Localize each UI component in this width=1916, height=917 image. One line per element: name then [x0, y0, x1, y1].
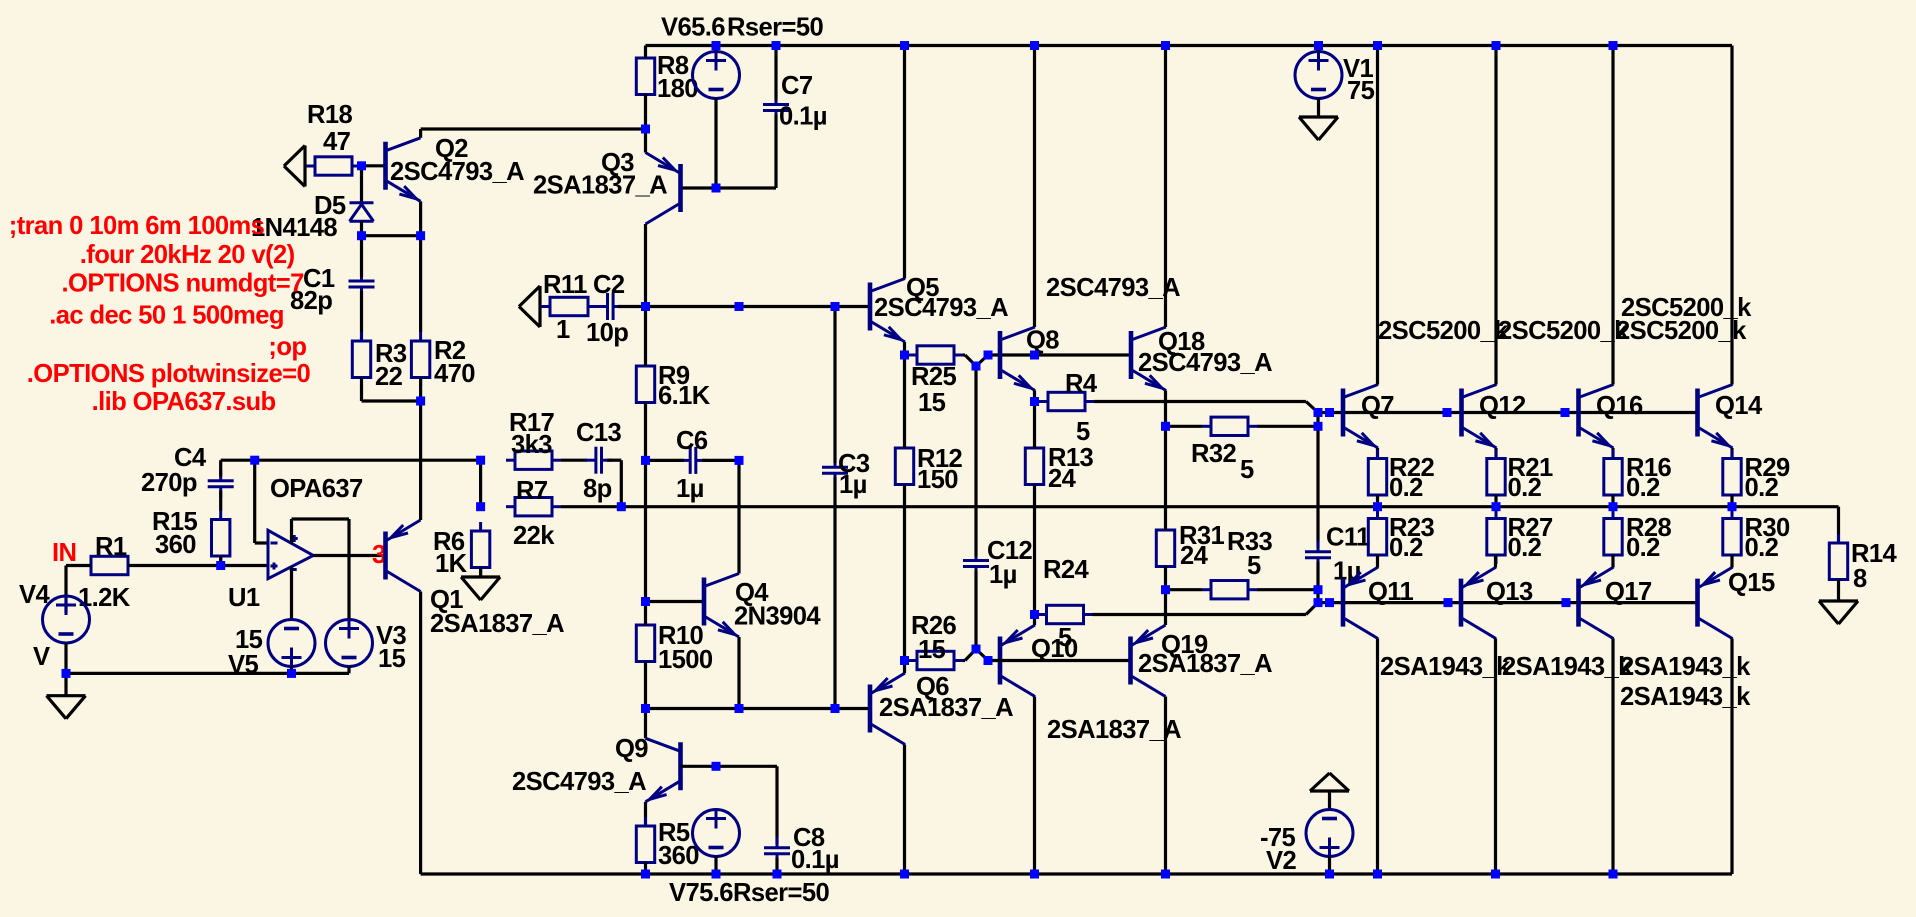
junction C2 rail at C6 column — [735, 302, 744, 311]
transistor Q4 2N3904 — [704, 574, 739, 638]
resistor R10 — [636, 616, 654, 671]
junction base rail at Q8 collector column — [1030, 351, 1039, 360]
wire R4 to output NPN bases — [1094, 402, 1318, 413]
wire Q17 collector down — [1611, 639, 1614, 875]
junction Q16 collector top rail — [1609, 41, 1618, 50]
wire V1 top lead — [1317, 46, 1320, 52]
resistor R11 — [541, 297, 597, 315]
svg-text:C6: C6 — [676, 427, 708, 455]
resistor R3 — [352, 332, 370, 387]
resistor R4 — [1039, 392, 1094, 410]
wire Q19 emitter up (crosses R24 wire) — [1164, 590, 1167, 625]
wire Q12 emitter to resistor — [1494, 448, 1497, 459]
wire top supply rail — [646, 44, 1733, 47]
svg-text:Q15: Q15 — [1728, 569, 1775, 597]
wire Q5 emitter down — [903, 342, 906, 355]
svg-text:2SC5200_k: 2SC5200_k — [1616, 317, 1747, 345]
wire R32 right lead — [1257, 425, 1318, 428]
junction V6 top — [712, 41, 721, 50]
svg-text:.ac dec 50 1 500meg: .ac dec 50 1 500meg — [49, 301, 284, 329]
resistor R23 — [1368, 510, 1386, 565]
wire Q5 collector up — [903, 46, 906, 279]
transistor Q15 2SA1943_k — [1698, 567, 1733, 639]
wire Q17 emitter up — [1611, 555, 1614, 568]
svg-text:2N3904: 2N3904 — [734, 603, 821, 631]
svg-text:Q7: Q7 — [1361, 392, 1394, 420]
svg-text:470: 470 — [434, 360, 475, 388]
voltage source V6 — [693, 51, 740, 99]
svg-text:V: V — [33, 643, 50, 671]
resistor R21 — [1487, 450, 1505, 505]
wire Q16 collector up — [1611, 46, 1614, 385]
resistor R18 — [306, 157, 361, 175]
wire IN to R1 — [66, 564, 91, 567]
wire C13 corner down — [607, 460, 621, 507]
junction R21 mid rail — [1492, 502, 1501, 511]
wire C3 bottom lead — [833, 477, 836, 708]
junction D5/C1 — [357, 231, 366, 240]
svg-text:0.2: 0.2 — [1745, 534, 1779, 562]
port arrow at R11 — [519, 286, 540, 327]
wire D5 to C1 node — [360, 221, 363, 235]
svg-text:Q10: Q10 — [1031, 635, 1078, 663]
voltage source V3 — [326, 619, 373, 667]
svg-text:10p: 10p — [586, 319, 628, 347]
svg-text:15: 15 — [918, 636, 946, 664]
wire R2 top — [419, 236, 422, 332]
transistor Q6 2SA1837_A — [870, 673, 905, 745]
capacitor C11 — [1305, 541, 1331, 569]
wire Q4 base — [646, 600, 705, 603]
wire Q1 emitter up — [419, 401, 422, 520]
transistor Q2 2SC4793_A — [386, 138, 421, 202]
svg-text:22k: 22k — [513, 522, 555, 550]
resistor R9 — [636, 357, 654, 412]
svg-text:360: 360 — [155, 531, 196, 559]
svg-text:V65.6: V65.6 — [661, 14, 725, 42]
resistor R28 — [1604, 510, 1622, 565]
transistor Q7 2SC5200_k — [1343, 385, 1378, 449]
svg-text:0.2: 0.2 — [1626, 534, 1660, 562]
svg-text:Q14: Q14 — [1715, 392, 1763, 420]
junction R8/Q2/Q3 node — [641, 125, 650, 134]
svg-text:1µ: 1µ — [989, 561, 1017, 589]
wire op-amp V- to V5 — [290, 568, 293, 620]
svg-text:15: 15 — [235, 626, 263, 654]
wire Q4 base node to R10 — [644, 602, 647, 626]
junction Q10 base — [984, 656, 993, 665]
wire Q2 collector to R8 node — [421, 129, 646, 138]
svg-text:2SA1943_k: 2SA1943_k — [1620, 653, 1751, 681]
svg-text:Q8: Q8 — [1026, 327, 1059, 355]
resistor R2 — [411, 332, 429, 387]
svg-text:V75.6: V75.6 — [669, 879, 733, 907]
junction R18/D5/Q2 base — [357, 161, 366, 170]
transistor Q16 2SC5200_k — [1579, 385, 1614, 449]
transistor Q10 2SA1837_A — [1000, 625, 1035, 697]
junction C12 top — [972, 362, 981, 371]
svg-text:8p: 8p — [583, 475, 612, 503]
svg-text:1500: 1500 — [658, 646, 713, 674]
svg-text:2SC4793_A: 2SC4793_A — [874, 294, 1008, 322]
wire Q9 emitter down — [644, 802, 647, 826]
svg-text:R25: R25 — [911, 363, 957, 391]
capacitor C1 — [349, 270, 375, 298]
wire Q6 emitter up — [903, 661, 906, 674]
svg-text:V4: V4 — [19, 581, 50, 609]
svg-text:2SA1943_k: 2SA1943_k — [1380, 653, 1511, 681]
svg-text:24: 24 — [1180, 542, 1209, 570]
capacitor C8 — [764, 837, 790, 865]
svg-text:.four 20kHz 20 v(2): .four 20kHz 20 v(2) — [80, 241, 295, 269]
svg-text:0.2: 0.2 — [1389, 474, 1423, 502]
junction V7 top — [712, 762, 721, 771]
wire ground bus V4-V5-V3 — [66, 672, 349, 675]
junction R5 bottom rail — [641, 870, 650, 879]
svg-text:2SA1837_A: 2SA1837_A — [430, 610, 564, 638]
wire Q13 emitter up — [1494, 555, 1497, 568]
junction C4 rail at R17 — [476, 456, 485, 465]
transistor Q18 2SC4793_A — [1131, 327, 1166, 391]
resistor R32 — [1202, 417, 1257, 435]
resistor R13 — [1025, 439, 1043, 494]
junction PNP base jog lower — [1314, 598, 1323, 607]
wire R22 to mid rail — [1376, 495, 1379, 507]
junction Q17 collector bottom rail — [1609, 870, 1618, 879]
ground under R14 — [1819, 601, 1858, 624]
wire Q9 collector up — [644, 709, 647, 739]
capacitor C6 — [679, 447, 707, 474]
wire Q8/Q18 base rail — [988, 353, 1131, 356]
svg-text:R18: R18 — [307, 101, 353, 129]
junction Q7 base pin — [1325, 408, 1334, 417]
junction C4 rail at op-amp branch — [250, 456, 259, 465]
wire Q16 emitter to resistor — [1611, 448, 1614, 459]
wire V1 bottom lead — [1317, 99, 1320, 118]
wire mid rail corner to R14 — [1837, 507, 1840, 543]
transistor Q8 2SC4793_A — [1000, 327, 1035, 391]
wire jog vertical — [1316, 413, 1319, 427]
svg-text:C13: C13 — [576, 419, 622, 447]
wire Q9 base corner to C8 — [775, 766, 778, 844]
wire C6 left lead — [646, 459, 685, 462]
wire R31 bottom — [1164, 567, 1167, 590]
svg-text:2SC5200_k: 2SC5200_k — [1378, 317, 1509, 345]
junction R26 left / Q6 emitter — [900, 656, 909, 665]
wire R18 junction to Q2 base — [362, 164, 386, 167]
junction V7 bottom rail — [712, 870, 721, 879]
junction V5 bottom — [287, 669, 296, 678]
voltage source V7 — [693, 809, 740, 857]
wire C6 right lead — [702, 459, 739, 462]
svg-text:V2: V2 — [1266, 847, 1296, 875]
junction C13/R7 at mid rail — [617, 502, 626, 511]
svg-text:;op: ;op — [268, 333, 306, 361]
wire Q1 collector down — [419, 592, 422, 875]
svg-text:R24: R24 — [1043, 556, 1090, 584]
svg-text:2SA1943_k: 2SA1943_k — [1502, 653, 1633, 681]
junction Q4 base — [641, 597, 650, 606]
wire R21 to mid rail — [1494, 495, 1497, 507]
svg-text:0.2: 0.2 — [1508, 474, 1542, 502]
svg-text:5: 5 — [1076, 418, 1090, 446]
junction R29 mid rail — [1728, 502, 1737, 511]
wire Q11 collector down — [1376, 639, 1379, 875]
wire Q3 collector down — [644, 224, 647, 307]
junction Q5 emitter / R25 — [900, 351, 909, 360]
ground under V4 — [47, 696, 86, 719]
junction Q11 base pin — [1325, 598, 1334, 607]
junction V6/Q3 base — [712, 184, 721, 193]
wire C8 bottom — [775, 858, 778, 874]
transistor Q3 2SA1837_A — [646, 153, 681, 225]
resistor R12 — [895, 439, 913, 494]
wire C1 to R3 — [360, 291, 363, 341]
wire V2 bottom lead — [1328, 857, 1331, 875]
capacitor C13 — [585, 447, 613, 474]
svg-text:2SA1837_A: 2SA1837_A — [1138, 650, 1272, 678]
svg-text:.lib OPA637.sub: .lib OPA637.sub — [92, 388, 276, 416]
wire Q18 emitter down — [1164, 391, 1167, 427]
wire R5 bottom — [644, 863, 647, 875]
capacitor C3 — [822, 456, 848, 484]
transistor Q1 2SA1837_A — [386, 520, 421, 592]
svg-text:Q11: Q11 — [1368, 578, 1414, 606]
capacitor C7 — [763, 94, 789, 122]
resistor R24 — [1038, 605, 1093, 623]
junction R16 mid rail — [1609, 502, 1618, 511]
junction Q4 emitter rail709 — [735, 704, 744, 713]
svg-text:C7: C7 — [781, 72, 813, 100]
wire C4 top corner — [221, 460, 255, 477]
wire Q5 base — [835, 305, 870, 308]
resistor R26 — [908, 651, 963, 669]
junction Q8 base — [984, 351, 993, 360]
diode D5 1N4148 — [350, 203, 374, 222]
resistor R29 — [1723, 450, 1741, 505]
svg-text:270p: 270p — [141, 469, 197, 497]
ground arrow above V2 — [1310, 773, 1349, 791]
wire Q10 collector down — [1033, 697, 1036, 875]
wire R12 down to R26 node — [903, 485, 906, 661]
svg-text:15: 15 — [918, 389, 946, 417]
wire R29 to mid rail — [1730, 495, 1733, 507]
resistor R16 — [1604, 450, 1622, 505]
capacitor C4 — [208, 470, 234, 498]
junction C12 bottom — [972, 645, 981, 654]
wire C3 top lead — [833, 307, 836, 464]
svg-text:Rser=50: Rser=50 — [727, 14, 823, 42]
svg-text:360: 360 — [658, 842, 699, 870]
wire Q4 emitter down — [737, 637, 740, 709]
transistor Q11 2SA1943_k — [1343, 567, 1378, 639]
wire rail 709 — [646, 707, 871, 710]
svg-text:0.2: 0.2 — [1626, 474, 1660, 502]
wire V2 top lead — [1328, 791, 1331, 810]
svg-text:2SC4793_A: 2SC4793_A — [1138, 349, 1272, 377]
wire R6 top — [479, 460, 482, 507]
wire Q14 collector up — [1730, 46, 1733, 385]
svg-text:;tran 0 10m 6m 100ms: ;tran 0 10m 6m 100ms — [9, 212, 265, 240]
junction R9/C6 — [641, 456, 650, 465]
svg-text:2SC5200_k: 2SC5200_k — [1498, 317, 1629, 345]
wire R7 right lead — [561, 505, 621, 508]
svg-text:47: 47 — [323, 128, 351, 156]
svg-text:Rser=50: Rser=50 — [733, 879, 829, 907]
svg-text:6.1K: 6.1K — [658, 382, 711, 410]
wire R25 node to R12 — [903, 355, 906, 448]
resistor R15 — [212, 511, 230, 566]
wire Q10 emitter up — [1033, 615, 1036, 626]
wire Q14 emitter to resistor — [1730, 448, 1733, 459]
wire jog to Q7 base — [1318, 411, 1330, 414]
transistor Q14 2SC5200_k — [1698, 385, 1733, 449]
svg-text:Q16: Q16 — [1596, 392, 1643, 420]
svg-text:1µ: 1µ — [839, 471, 867, 499]
wire mid output rail — [621, 505, 1838, 508]
wire V4 junction to ground — [64, 673, 67, 695]
wire VAS node to R9 — [644, 307, 647, 367]
svg-text:22: 22 — [375, 363, 403, 391]
resistor R31 — [1156, 521, 1174, 576]
wire Q7 emitter to resistor — [1376, 448, 1379, 459]
svg-text:2SC4793_A: 2SC4793_A — [1046, 274, 1180, 302]
svg-text:R32: R32 — [1191, 440, 1237, 468]
svg-text:V5: V5 — [228, 651, 258, 679]
svg-text:R14: R14 — [1851, 540, 1898, 568]
junction R31/R33/Q19 emitter — [1161, 585, 1170, 594]
junction Q18 collector top rail — [1161, 41, 1170, 50]
junction Q2 emitter/R2 — [416, 231, 425, 240]
wire Q13 collector down — [1494, 639, 1497, 875]
junction VAS node — [641, 302, 650, 311]
junction R32 right — [1314, 422, 1323, 431]
wire Q15 emitter up — [1730, 555, 1733, 568]
resistor R7 — [506, 498, 561, 516]
wire C1 top — [360, 236, 363, 277]
wire Q10/Q19 base rail — [988, 659, 1131, 662]
wire C7 bottom lead — [774, 115, 777, 189]
wire Q8 collector up — [1033, 46, 1036, 328]
voltage source V1 — [1295, 51, 1342, 99]
wire Q9 base — [681, 765, 778, 768]
wire NPN base rail — [1330, 411, 1698, 414]
transistor Q17 2SA1943_k — [1579, 567, 1614, 639]
resistor R1 — [82, 556, 137, 574]
wire R31 top (crosses mid rail) — [1164, 426, 1167, 530]
junction NPN base jog upper — [1314, 408, 1323, 417]
svg-text:.OPTIONS plotwinsize=0: .OPTIONS plotwinsize=0 — [27, 360, 311, 388]
svg-text:0.2: 0.2 — [1745, 474, 1779, 502]
resistor R14 — [1829, 534, 1847, 589]
wire op-amp V+ loop to V3 — [292, 519, 350, 619]
wire C7 top lead — [774, 46, 777, 101]
svg-text:2SC4793_A: 2SC4793_A — [390, 158, 524, 186]
port arrow at R18 — [284, 146, 305, 187]
svg-text:Q13: Q13 — [1486, 578, 1533, 606]
ground under R6 — [461, 577, 500, 600]
junction V4 bottom — [62, 669, 71, 678]
svg-text:R11: R11 — [543, 271, 587, 299]
wire D5 top lead — [360, 166, 363, 203]
wire R24 to PNP bases — [1093, 603, 1319, 615]
junction Q19 collector bottom rail — [1161, 870, 1170, 879]
wire R6 to ground — [479, 568, 482, 578]
svg-text:2SA1837_A: 2SA1837_A — [879, 694, 1013, 722]
wire Q3 emitter up — [644, 129, 647, 153]
svg-text:24: 24 — [1048, 465, 1077, 493]
wire R33 left lead — [1166, 588, 1203, 591]
wire V5 bottom — [290, 667, 293, 674]
junction R10 bottom rail709 — [641, 704, 650, 713]
svg-text:C11: C11 — [1326, 524, 1370, 552]
wire R13 top lead — [1033, 402, 1036, 449]
transistor Q5 2SC4793_A — [870, 279, 905, 343]
svg-text:OPA637: OPA637 — [270, 475, 363, 503]
resistor R25 — [908, 346, 963, 364]
svg-text:75: 75 — [1347, 77, 1375, 105]
svg-text:5: 5 — [1240, 456, 1254, 484]
resistor R33 — [1202, 581, 1257, 599]
wire Q2 emitter down — [419, 201, 422, 235]
wire C12 bottom lead — [974, 571, 977, 650]
wire Q19 collector down — [1164, 697, 1167, 875]
svg-text:Q9: Q9 — [615, 735, 648, 763]
junction Q13 collector bottom rail — [1491, 870, 1500, 879]
wire C2 to VAS node — [618, 305, 646, 308]
wire Q11 emitter up — [1376, 555, 1379, 568]
svg-text:U1: U1 — [228, 584, 260, 612]
junction R22 mid rail — [1373, 502, 1382, 511]
voltage source V5 — [268, 620, 315, 668]
wire Q4 collector up — [737, 460, 740, 573]
svg-text:C4: C4 — [174, 444, 207, 472]
svg-text:1K: 1K — [435, 550, 468, 578]
wire D5 node to Q2 emitter node — [362, 234, 421, 237]
transistor Q9 2SC4793_A — [646, 738, 681, 802]
junction V2 bottom rail — [1325, 870, 1334, 879]
wire V7 bottom — [714, 857, 717, 875]
wire C4 to R15 — [219, 491, 222, 511]
wire R17 to C13 — [561, 459, 587, 462]
wire R16 to mid rail — [1611, 495, 1614, 507]
junction C2 rail at C3/Q5 base — [831, 302, 840, 311]
wire PNP base rail — [1330, 601, 1698, 604]
junction C7 top — [772, 41, 781, 50]
junction Q12 collector top rail — [1492, 41, 1501, 50]
wire R33 right lead — [1257, 588, 1318, 591]
svg-text:5: 5 — [1247, 552, 1261, 580]
wire C4 rail to R17 — [255, 459, 481, 462]
junction Q13 base pin — [1444, 598, 1453, 607]
wire R32 left lead — [1166, 425, 1203, 428]
capacitor C2 — [597, 293, 625, 320]
wire Q18 collector up — [1164, 46, 1167, 328]
svg-text:R1: R1 — [95, 533, 127, 561]
svg-text:8: 8 — [1853, 565, 1867, 593]
wire op-amp inverting input — [255, 460, 268, 543]
resistor R6 — [471, 522, 489, 577]
junction Q6 collector bottom rail — [900, 870, 909, 879]
wire R9 to C6 rail — [644, 403, 647, 461]
wire Q7 collector up — [1376, 46, 1379, 385]
wire C2 rail — [646, 305, 836, 308]
wire R9 node down to Q4 base — [644, 460, 647, 601]
wire C11 column top — [1316, 426, 1319, 548]
svg-text:2SA1837_A: 2SA1837_A — [1047, 716, 1181, 744]
svg-text:2SA1837_A: 2SA1837_A — [533, 172, 667, 200]
wire R3 corner to R2 bottom — [362, 378, 421, 402]
